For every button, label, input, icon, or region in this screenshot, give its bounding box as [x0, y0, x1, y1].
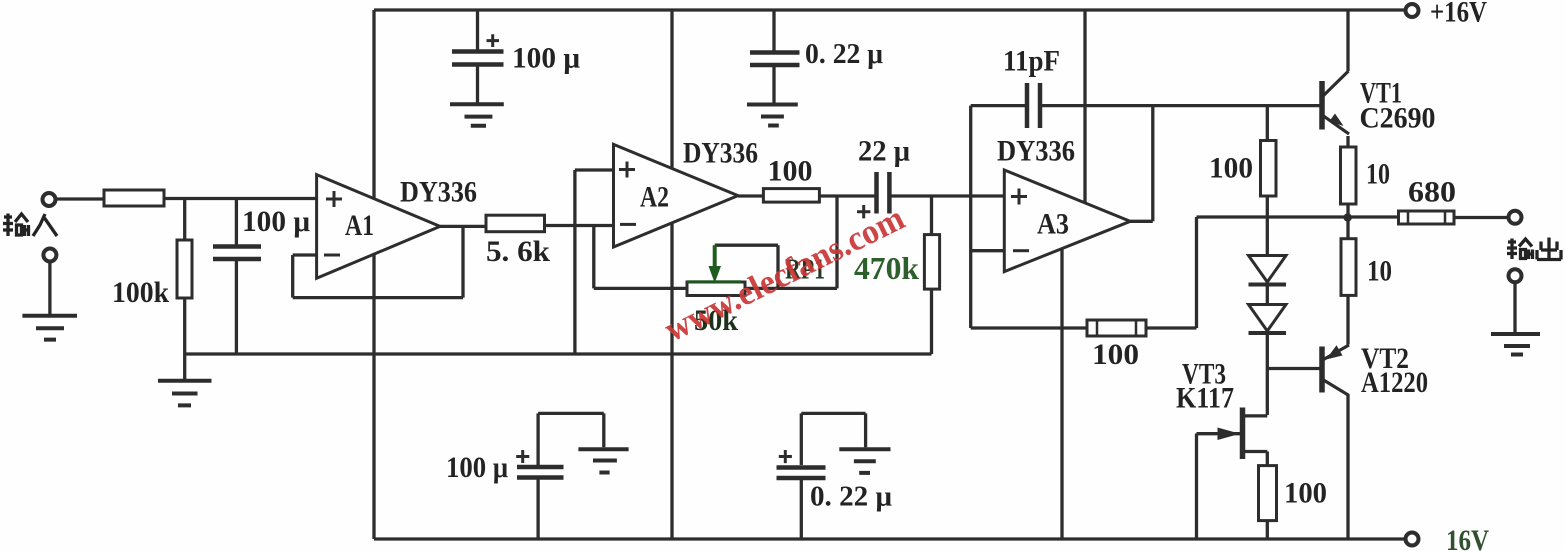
wire bottom 0.22u cap to bottom rail [800, 480, 803, 539]
wire 100k bottom to ground line [183, 298, 186, 354]
wire stem top 100u cap upper [476, 10, 479, 51]
capacitor 11pF plates [1027, 83, 1040, 128]
wire A1 feedback bottom [293, 296, 463, 299]
capacitor 100u top plates [452, 52, 504, 65]
wire VT3 gate [1197, 432, 1242, 435]
diode D2 [1249, 305, 1287, 334]
wire 100 resistor to 22u cap [819, 194, 876, 197]
wire to RP1 left terminal [594, 287, 687, 290]
wire 11pF left [971, 104, 1027, 107]
svg-text:100 μ: 100 μ [446, 451, 508, 484]
wire RP1 wiper loop top [715, 244, 778, 247]
svg-text:A1220: A1220 [1361, 366, 1428, 399]
wire left vertical bus x374 [372, 10, 375, 539]
resistor 10 upper [1341, 147, 1357, 204]
wire A1 output to 5.6k [440, 225, 486, 228]
wire VT3 drain [1243, 414, 1268, 417]
svg-text:+16V: +16V [1430, 0, 1487, 29]
resistor input series (unlabeled) [104, 190, 164, 206]
node 输入 input label [3, 214, 57, 237]
ground under 100k [158, 381, 212, 406]
wire 10 resistor to junction [1346, 204, 1349, 218]
wire tap down to 470k [930, 196, 933, 235]
wire A2 noninverting input [575, 168, 614, 171]
plus mark 22u cap [857, 205, 870, 218]
wire vertical bus x1085 from top rail [1083, 10, 1086, 205]
wire tap down to input 100u cap [235, 199, 238, 247]
terminal input lower [43, 249, 56, 262]
wire input lower terminal to ground [48, 262, 51, 316]
svg-text:K117: K117 [1176, 382, 1234, 415]
svg-text:DY336: DY336 [683, 137, 758, 170]
capacitor bottom 0.22u plates [777, 468, 826, 479]
RP1 wiper arrow (green) [687, 245, 741, 283]
plus mark bottom 100u cap [516, 450, 529, 463]
resistor R 100k [177, 240, 192, 298]
plus mark top 100u cap [487, 34, 500, 47]
wire VT3 source [1243, 450, 1268, 453]
svg-text:0. 22 μ: 0. 22 μ [810, 482, 892, 513]
wire A2 output to 100 resistor [738, 194, 763, 197]
wire input cap bottom to ground line [235, 260, 238, 355]
wire vertical bus x1062 to bottom rail [1060, 246, 1063, 539]
ground at bottom 0.22u cap [839, 449, 890, 473]
wire 22u cap to A3 + input [889, 194, 1004, 197]
wire diode D2 down to VT3 drain corner [1266, 333, 1269, 415]
terminal output lower [1509, 269, 1522, 282]
svg-text:5. 6k: 5. 6k [486, 235, 550, 268]
wire VT3 gate down to bottom rail [1195, 434, 1198, 540]
op-amp A3 [1004, 170, 1130, 272]
terminal input upper [43, 193, 56, 206]
wire 680 to output terminal [1454, 216, 1508, 219]
svg-text:100 μ: 100 μ [242, 205, 310, 238]
wire A3 feedback bottom left [971, 326, 1087, 329]
terminal output upper [1509, 211, 1522, 224]
wire A2 feedback up leg [835, 196, 838, 288]
wire bottom 100u cap to bottom rail [536, 480, 539, 540]
resistor 100 at A2 output [763, 189, 819, 203]
wire A1 inverting input [293, 253, 317, 256]
plus mark bottom 0.22u cap [779, 450, 792, 463]
wire output line y217 [1197, 215, 1399, 218]
svg-text:22 μ: 22 μ [858, 135, 910, 168]
svg-text:0. 22 μ: 0. 22 μ [805, 39, 883, 70]
wire tap down to 100k [183, 199, 186, 241]
wire stem top 0.22u cap upper [772, 10, 775, 52]
svg-text:A3: A3 [1037, 208, 1069, 241]
svg-text:100: 100 [1209, 152, 1253, 185]
svg-text:DY336: DY336 [997, 135, 1075, 168]
svg-text:A1: A1 [345, 209, 374, 242]
wire A3 feedback bottom right [1146, 326, 1197, 329]
svg-text:10: 10 [1366, 158, 1390, 191]
resistor 5.6k [486, 215, 545, 232]
resistor 100 A3 feedback [1087, 320, 1146, 336]
ground at bottom 100u cap [578, 449, 628, 472]
wire horizontal ground line y354 [185, 352, 932, 355]
wire bottom 0.22u loop to ground [864, 413, 867, 447]
wire 100 resistor to diode D1 [1266, 196, 1269, 256]
wire output lower terminal to ground [1513, 283, 1516, 333]
resistor 100 VT3 source [1259, 466, 1277, 521]
wire bottom 100u cap top plate up [536, 413, 539, 465]
wire junction to lower 10 resistor [1346, 218, 1349, 239]
ground under output lower terminal [1491, 334, 1540, 355]
ground under top 100u cap [450, 104, 504, 125]
wire input terminal to series resistor [56, 197, 105, 200]
wire top +16V rail [374, 8, 1406, 11]
svg-text:DY336: DY336 [400, 176, 477, 209]
transistor VT2 [1322, 345, 1349, 396]
wire diode D1 to D2 [1266, 285, 1269, 305]
wire A3 output up leg [1151, 106, 1154, 222]
ground under top 0.22u cap [747, 105, 798, 126]
svg-text:100: 100 [1284, 477, 1327, 510]
wire RP1 wiper loop right [776, 245, 779, 288]
svg-text:100 μ: 100 μ [512, 42, 580, 75]
wire A3 output [1130, 220, 1153, 223]
op-amp A2 [614, 144, 739, 247]
svg-text:10: 10 [1367, 255, 1392, 288]
resistor 470k [924, 235, 939, 290]
wire series resistor to A1 + input [164, 197, 317, 200]
wire VT3 100 resistor to bottom rail [1266, 521, 1269, 540]
wire RP1 right terminal to feedback leg [745, 287, 837, 290]
wire bottom -16V rail [374, 537, 1406, 540]
capacitor 22u plates [877, 172, 890, 214]
wire bottom 100u loop to ground [602, 413, 605, 447]
svg-text:C2690: C2690 [1360, 102, 1436, 135]
wire middle vertical bus x672 [670, 10, 673, 539]
wire A2 inv input tap down [592, 226, 595, 289]
wire VT1 emitter to 10 resistor [1346, 136, 1349, 147]
terminal -16V [1406, 533, 1419, 546]
capacitor input 100u plates [213, 247, 261, 260]
resistor 10 lower [1341, 239, 1356, 296]
node 输出 output label [1507, 238, 1561, 260]
wire VT2 base [1267, 367, 1319, 370]
wire stem top 0.22u cap lower to ground [772, 66, 775, 104]
wire VT3 source down to 100 resistor [1266, 452, 1269, 466]
wire bottom 100u loop top [538, 412, 604, 415]
wire 470k bottom to ground line [930, 289, 933, 354]
wire stem top 100u cap lower to ground [476, 65, 479, 103]
wire A3 feedback up leg [1195, 217, 1198, 328]
wire 11pF right to VT1 base [1040, 104, 1322, 107]
terminal +16V [1406, 4, 1419, 17]
resistor 100 bias [1261, 141, 1277, 197]
junction dot VT1 emitter node [1344, 213, 1352, 221]
wire bottom 0.22u cap top plate up [800, 413, 803, 465]
wire bottom 0.22u loop top [801, 412, 865, 415]
svg-text:100: 100 [768, 155, 813, 188]
op-amp A1 [317, 175, 440, 279]
wire 5.6k to A2 inverting input [545, 224, 614, 227]
potentiometer RP1 50k body [687, 282, 745, 296]
wire vertical x970.7 11pF left leg [969, 106, 972, 328]
wire VT2 collector to bottom rail [1346, 395, 1349, 539]
capacitor 0.22u top plates [750, 53, 800, 66]
transistor VT1 [1322, 71, 1349, 134]
wire A1 feedback right leg [461, 226, 464, 297]
transistor VT3 JFET [1218, 408, 1243, 460]
svg-text:A2: A2 [640, 181, 669, 214]
svg-text:100: 100 [1092, 338, 1139, 371]
capacitor bottom 100u plates [517, 467, 564, 478]
wire VT1 collector to top rail [1346, 10, 1349, 71]
ground under input lower terminal [22, 316, 77, 340]
wire vertical x574.9 to ground line [573, 170, 576, 354]
svg-text:11pF: 11pF [1003, 45, 1060, 78]
wire lower 10 resistor to VT2 emitter [1346, 295, 1349, 344]
wire A3 inverting input [971, 249, 1005, 252]
wire bias tap down to 100 resistor [1266, 106, 1269, 141]
resistor 680 [1399, 211, 1455, 224]
diode D1 [1249, 256, 1287, 285]
wire A1 feedback left leg [291, 255, 294, 298]
svg-text:16V: 16V [1446, 524, 1489, 551]
wire ground stem below 100k node [183, 354, 186, 380]
svg-text:680: 680 [1408, 176, 1456, 209]
svg-text:100k: 100k [112, 276, 169, 309]
